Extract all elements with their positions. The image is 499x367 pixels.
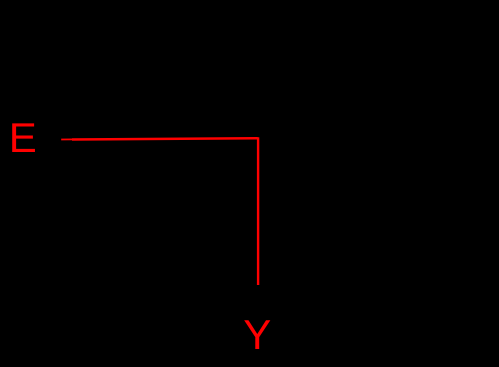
bond E to vertex (wire), thin lead-in at left end <box>61 138 74 140</box>
bond vertex to Y (wire) <box>257 137 259 285</box>
svg-text:Y: Y <box>243 311 271 358</box>
bond E to vertex (wire), main segment <box>72 138 258 139</box>
svg-text:E: E <box>9 114 37 161</box>
